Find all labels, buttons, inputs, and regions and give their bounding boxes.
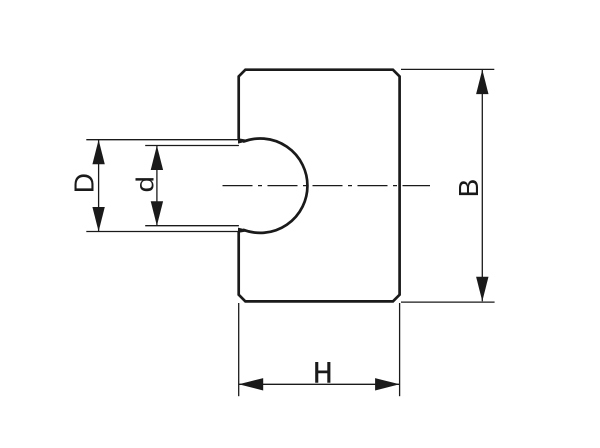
svg-text:B: B (453, 179, 484, 198)
svg-text:d: d (131, 176, 159, 192)
svg-text:D: D (69, 173, 100, 193)
